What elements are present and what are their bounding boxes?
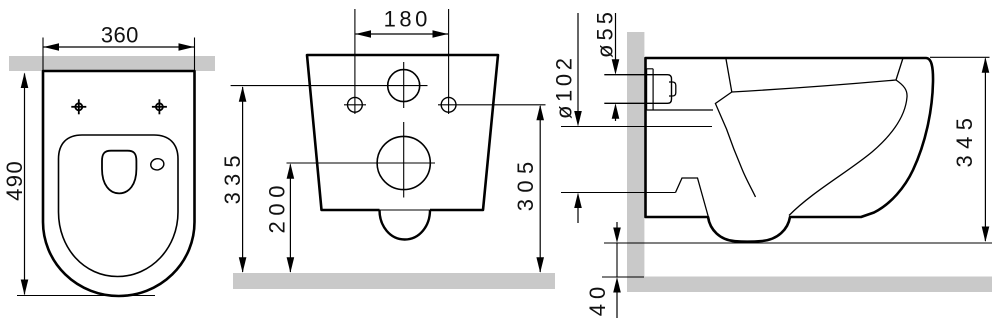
svg-text:ø55: ø55 (593, 12, 618, 58)
dim 490 line (24, 74, 26, 295)
inlet crosshair vertical (403, 62, 405, 108)
dim 40 lower arrow (613, 277, 621, 293)
drain pipe top line (o102 extension) (561, 126, 712, 128)
svg-text:ø102: ø102 (552, 58, 577, 119)
mounting hole left (348, 97, 363, 112)
inner rim zigzag and bowl J-curve (715, 59, 755, 197)
floor (middle view) (233, 273, 555, 289)
dim 180 extension lines (354, 9, 356, 114)
outlet bump opening (thin line) (380, 209, 431, 211)
svg-text:335: 335 (220, 155, 245, 204)
recess rectangle at wall (647, 69, 713, 110)
inlet pipe (side view) (604, 75, 671, 104)
dim o102 leader (577, 13, 579, 114)
dim 180 line (356, 33, 449, 35)
dim o55 leader (615, 13, 617, 62)
wall (side view) (627, 32, 644, 292)
mounting hole right (441, 97, 456, 112)
dim 40 upper arrow (616, 222, 618, 230)
inlet circle (water supply) (388, 70, 420, 102)
dim 200 line (289, 165, 291, 273)
hole centerline (305 extension) (438, 104, 546, 106)
drain crosshair vertical (403, 122, 405, 198)
dim 335 line (242, 87, 244, 272)
drain circle (377, 136, 430, 189)
svg-text:490: 490 (2, 161, 27, 201)
svg-text:345: 345 (952, 118, 977, 168)
top edge extension line (930, 56, 990, 58)
svg-text:360: 360 (101, 23, 139, 48)
centerline y=85.6 (335 extension) (231, 85, 428, 87)
water jet ellipse (150, 157, 165, 171)
dim 305 line (539, 106, 541, 272)
inner bowl sweep (789, 80, 907, 216)
drain notch (676, 178, 710, 221)
toilet body outline (top view) (43, 71, 195, 296)
wall (top view) (9, 56, 215, 71)
inlet pipe end tab (669, 82, 676, 96)
svg-text:180: 180 (384, 6, 428, 31)
svg-text:305: 305 (513, 162, 538, 212)
toilet body outline (rear view) (307, 55, 498, 210)
floor (side view) (643, 277, 992, 293)
outlet bump (380, 210, 431, 240)
dim 360 extension lines (42, 38, 44, 72)
dim 345 line (984, 59, 986, 242)
floor tick for 40 (602, 276, 644, 278)
bottom reference line (604, 242, 992, 244)
svg-text:200: 200 (264, 186, 289, 234)
seat opening (inner oval) (59, 135, 179, 277)
fixing mark right (152, 99, 167, 114)
drain pipe bottom line (o102 extension) (561, 192, 676, 194)
flush outlet shape (102, 151, 136, 194)
floor reference line (left view) (17, 295, 155, 297)
toilet body outline (side view) (646, 58, 934, 242)
rim top line (732, 80, 896, 92)
drain centerline (200 extension) (287, 162, 436, 164)
right rim corner line (896, 58, 903, 80)
svg-text:40: 40 (585, 287, 610, 317)
dim 360 line (44, 46, 195, 48)
fixing mark left (71, 99, 86, 114)
